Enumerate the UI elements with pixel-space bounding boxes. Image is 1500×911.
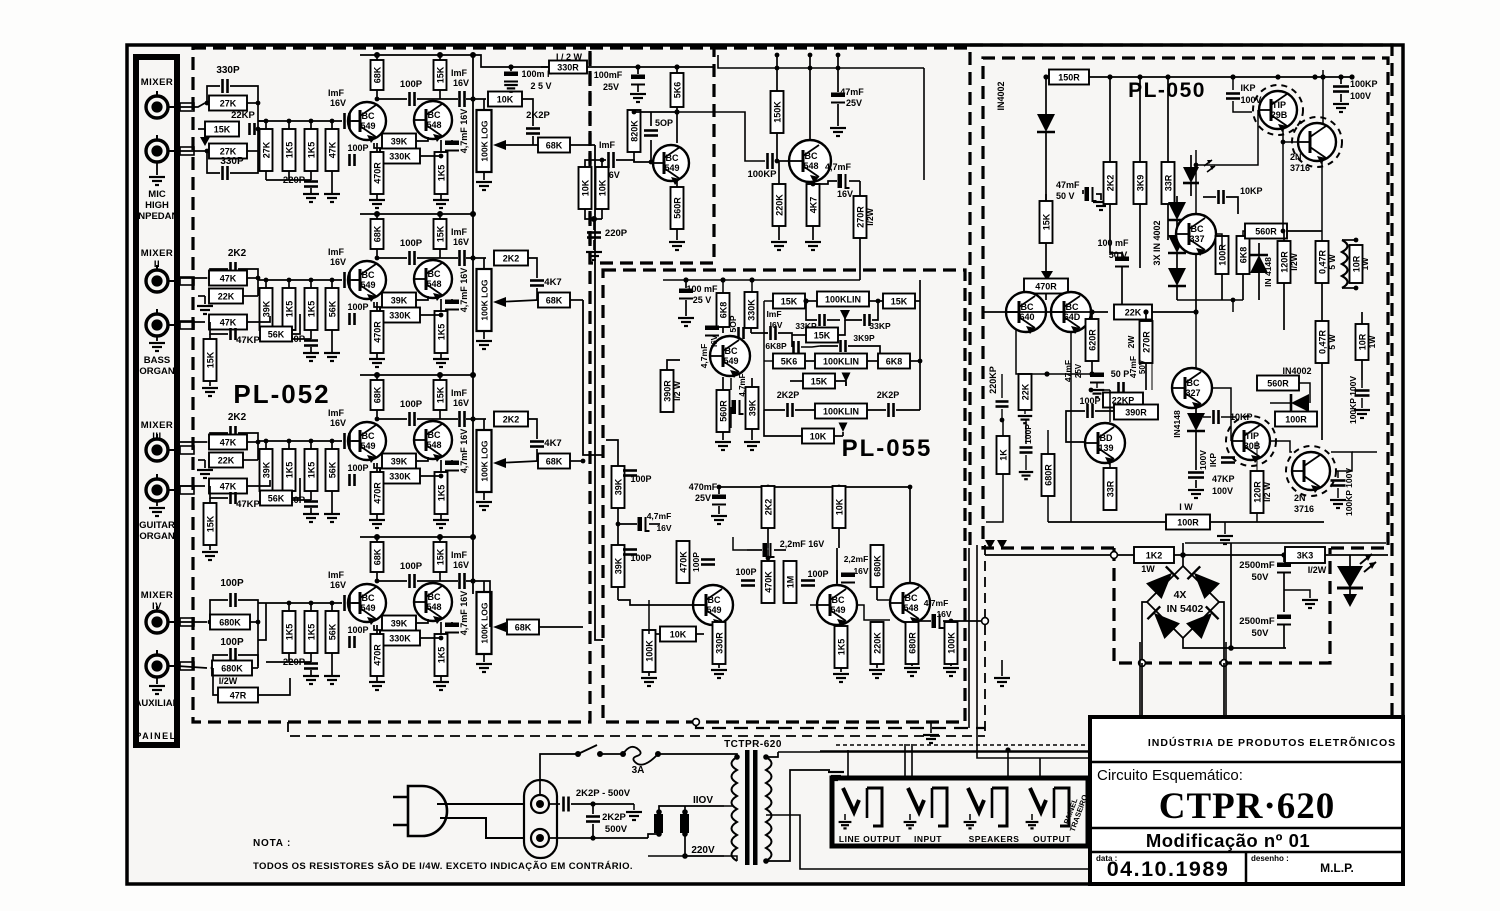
svg-text:100P: 100P [347, 143, 368, 153]
svg-text:BC: BC [805, 151, 818, 161]
svg-text:549: 549 [706, 605, 721, 615]
svg-text:2,2mF: 2,2mF [844, 554, 869, 564]
ground 100K out [943, 668, 959, 676]
wire join mid [257, 442, 259, 460]
svg-text:6K8: 6K8 [1239, 247, 1249, 264]
svg-text:150K: 150K [773, 101, 783, 123]
svg-text:390R: 390R [1125, 408, 1147, 418]
dashed box PL-050 [983, 58, 1388, 548]
svg-text:50 P: 50 P [1111, 369, 1130, 379]
resistor 470R PL-050 [1041, 271, 1053, 281]
dashed box preamp small [590, 48, 714, 263]
jack MIXER [146, 91, 177, 118]
resistor 4K7 driver [812, 183, 814, 184]
svg-text:100KP: 100KP [747, 169, 777, 180]
svg-text:68K: 68K [515, 623, 532, 633]
svg-text:1K5: 1K5 [307, 142, 317, 159]
svg-text:548: 548 [426, 602, 441, 612]
resistor 100R a [1221, 236, 1223, 240]
svg-text:25V: 25V [603, 82, 619, 92]
resistor 390R 1/2W [661, 370, 674, 412]
resistor 68K (ch4) [376, 537, 378, 583]
svg-text:270R: 270R [856, 206, 866, 228]
ground bundle [1001, 660, 1003, 676]
resistor 22K [209, 453, 243, 468]
svg-text:BC: BC [362, 111, 375, 121]
resistor 15K tone row1 left [773, 294, 805, 309]
svg-text:16V: 16V [453, 398, 469, 408]
potentiometer 100KLIN treble [815, 354, 867, 369]
ground 100KP b [1330, 500, 1346, 508]
ground 47KP [1188, 490, 1204, 498]
svg-text:56K: 56K [328, 300, 338, 317]
transistor BC548 pa3 [890, 583, 930, 625]
resistor 680R pa3 [911, 622, 913, 623]
resistor 68K out (ch2) [538, 293, 570, 308]
resistor 680K pa2 [871, 545, 884, 587]
svg-text:5K6: 5K6 [673, 82, 683, 99]
resistor 2K2 out (ch2) [466, 257, 486, 259]
svg-text:16V: 16V [453, 560, 469, 570]
resistor 1K2 1W [1134, 547, 1174, 563]
ground 560R [669, 242, 685, 250]
ground (ch1 bank2) [331, 180, 333, 193]
dashed box power supply [1114, 548, 1330, 663]
svg-text:16V: 16V [330, 98, 346, 108]
wire base BC549 [352, 602, 361, 604]
resistor 15K ch1 [205, 122, 239, 137]
svg-text:100KP: 100KP [1350, 79, 1378, 89]
transistor BC549 (ch2) [348, 261, 386, 302]
svg-text:549: 549 [830, 605, 845, 615]
ground pot (ch3) [476, 502, 492, 510]
rear jack SPEAKERS [964, 788, 1007, 828]
svg-text:68K: 68K [546, 141, 563, 151]
ground arrow ch1 [204, 129, 206, 138]
svg-text:560R: 560R [1255, 227, 1277, 237]
svg-text:15K: 15K [436, 225, 446, 242]
svg-text:47KP: 47KP [236, 499, 260, 510]
svg-text:5OP: 5OP [728, 315, 738, 332]
svg-text:10KP: 10KP [1240, 186, 1263, 196]
resistor 1K5 (ch1 bank) [310, 121, 312, 129]
svg-text:15K: 15K [1042, 213, 1052, 230]
svg-text:100V: 100V [1350, 91, 1371, 101]
svg-text:15K: 15K [436, 66, 446, 83]
resistor 15K mid [806, 328, 838, 343]
resistor 1K5 (ch2 bank) [288, 280, 290, 288]
svg-text:1K5: 1K5 [285, 624, 295, 641]
svg-text:68K: 68K [373, 386, 383, 403]
svg-text:2K2P: 2K2P [526, 110, 550, 121]
svg-text:MIXER: MIXER [141, 77, 174, 88]
ground 330R pa1 [711, 670, 727, 678]
ground (ch1 bank) [310, 188, 312, 193]
resistor 15K vert [209, 498, 211, 504]
wire driver right [923, 68, 925, 180]
ground 1K5 (ch1) [433, 200, 449, 208]
svg-text:16V: 16V [453, 237, 469, 247]
pot wiper arrow (ch1) [497, 144, 538, 146]
resistor 47K (ch1 bank) [331, 121, 333, 129]
supply rail PL-050 [1046, 76, 1352, 78]
resistor 15K (ch3) [439, 375, 441, 419]
resistor 1K5 (ch4 bank) [310, 603, 312, 611]
svg-text:15K: 15K [436, 386, 446, 403]
ground bottom rail PL-050 [1224, 522, 1226, 534]
collector wire to next stage [677, 112, 765, 161]
ground bundle b [930, 722, 932, 733]
supply bus vertical [472, 55, 474, 594]
svg-text:GUITAR: GUITAR [139, 520, 175, 531]
resistor 10R 1W b [1356, 324, 1369, 360]
resistor 270R 1/2W [859, 181, 861, 196]
svg-text:47K: 47K [220, 482, 237, 492]
ground 22K left [1018, 416, 1032, 423]
svg-text:04.10.1989: 04.10.1989 [1107, 857, 1230, 881]
jack MIXER [146, 434, 177, 461]
svg-text:1K5: 1K5 [437, 485, 447, 502]
ground 4K7 [805, 242, 821, 250]
jack MIXER [146, 606, 177, 633]
svg-text:680R: 680R [1044, 464, 1054, 486]
svg-text:100P: 100P [400, 399, 423, 410]
svg-text:470K: 470K [764, 571, 774, 593]
svg-text:120R: 120R [1280, 251, 1290, 273]
svg-text:INDÚSTRIA DE PRODUTOS ELETR: INDÚSTRIA DE PRODUTOS ELETRÕNICOS [1148, 736, 1396, 749]
svg-text:47R: 47R [230, 691, 247, 701]
resistor 15K (ch1) [439, 55, 441, 99]
svg-text:1W: 1W [1141, 564, 1155, 574]
resistor 56K [260, 327, 292, 342]
svg-text:PL-052: PL-052 [233, 379, 330, 409]
resistor 39K in top [612, 466, 625, 508]
svg-text:220KP: 220KP [988, 366, 998, 394]
transistor TIP30B [1226, 416, 1276, 466]
svg-text:330K: 330K [389, 472, 411, 482]
bottom rail PL-050 [1048, 521, 1324, 523]
svg-text:10K: 10K [810, 432, 827, 442]
jack contact [180, 277, 194, 285]
resistor 10K bias a [579, 167, 592, 209]
svg-text:ImF: ImF [328, 247, 345, 257]
wire base BC549 [352, 279, 361, 281]
driver stage rail [718, 55, 924, 68]
resistor 68K out (ch1) [538, 138, 570, 153]
resistor 33R b [1104, 468, 1117, 510]
junction rings dashed crossings [693, 719, 700, 726]
svg-text:100P: 100P [347, 302, 368, 312]
ground (ch4 bank) [310, 670, 312, 675]
ground 470R (ch4) [369, 682, 385, 690]
svg-text:MIC: MIC [148, 189, 166, 200]
resistor 15K vert [209, 334, 211, 340]
resistor 470R (ch2) [376, 302, 378, 311]
wire join mid [257, 278, 259, 296]
wire fb (ch3) [416, 457, 428, 461]
resistor 47K a [177, 441, 207, 443]
svg-text:ImF: ImF [451, 388, 468, 398]
svg-text:100P: 100P [807, 569, 828, 579]
ground pot (ch1) [476, 182, 492, 190]
svg-text:100R: 100R [1177, 518, 1199, 528]
svg-text:640: 640 [1019, 312, 1034, 322]
bundle verticals [984, 545, 986, 736]
svg-text:139: 139 [1098, 443, 1113, 453]
resistor 15K tone row1 right [869, 300, 883, 302]
svg-text:2K2P: 2K2P [877, 390, 900, 400]
ground 1K5 (ch2) [433, 359, 449, 367]
svg-text:BC: BC [428, 110, 441, 120]
svg-text:100V: 100V [1198, 450, 1208, 470]
resistor 220K [778, 161, 780, 184]
svg-text:15K: 15K [436, 548, 446, 565]
transistor BC337 [1176, 214, 1216, 256]
svg-text:100K LOG: 100K LOG [480, 440, 490, 481]
svg-text:6K8: 6K8 [886, 357, 903, 367]
svg-text:2N: 2N [1294, 493, 1306, 503]
svg-text:548: 548 [426, 279, 441, 289]
resistor 1K5 emitter (ch1) [440, 140, 442, 152]
transistor TIP29B [1253, 85, 1303, 135]
svg-text:4,7mF 16V: 4,7mF 16V [459, 429, 469, 474]
svg-text:39K: 39K [391, 619, 408, 629]
svg-text:1M: 1M [786, 576, 796, 589]
svg-text:MIXER: MIXER [141, 248, 174, 259]
potentiometer 100K LOG (ch4) [483, 581, 485, 592]
fuse 3A [620, 751, 626, 757]
resistor 33R PL-050 [1167, 77, 1169, 162]
resistor 39K in bottom [612, 545, 625, 587]
svg-text:AUXILIAR: AUXILIAR [135, 698, 180, 709]
svg-text:desenho :: desenho : [1251, 854, 1289, 863]
resistor 5K6 tone [773, 354, 805, 369]
jack MIXER [146, 474, 177, 501]
svg-text:1K5: 1K5 [307, 462, 317, 479]
resistor 0.47R 5W a [1316, 241, 1329, 283]
svg-text:4K7: 4K7 [544, 277, 561, 288]
ground (panel) [156, 500, 158, 506]
svg-text:220K: 220K [873, 632, 883, 654]
jack MIXER [146, 650, 177, 677]
resistor 2K2 out (ch3) [466, 418, 486, 420]
svg-text:5OP: 5OP [655, 118, 673, 128]
svg-text:1K2: 1K2 [1146, 551, 1163, 561]
resistor 3K3 1/2W [1285, 547, 1325, 563]
resistor 1M pa [784, 561, 797, 603]
svg-text:29B: 29B [1271, 110, 1288, 120]
svg-text:2K2P: 2K2P [602, 812, 626, 823]
svg-text:56K: 56K [328, 623, 338, 640]
transistor BC548 (ch3) [414, 421, 452, 462]
svg-text:100P: 100P [1079, 396, 1100, 406]
resistor 47K a [177, 277, 207, 279]
transistor BC640 b [1051, 292, 1091, 334]
wire input join ch1 [257, 103, 259, 151]
svg-text:680R: 680R [908, 632, 918, 654]
bus wire A [595, 145, 603, 640]
svg-text:68K: 68K [373, 66, 383, 83]
svg-text:560R: 560R [719, 400, 729, 422]
resistor 68K out (ch3) [538, 454, 570, 469]
resistor 470R (ch4) [376, 625, 378, 634]
svg-text:270R: 270R [1142, 331, 1152, 353]
ground 680R pa3 [904, 668, 920, 676]
supply rail preamp [587, 66, 714, 68]
ground transformer [828, 772, 844, 780]
resistor 560R b [1257, 376, 1299, 391]
svg-text:M.L.P.: M.L.P. [1320, 861, 1354, 875]
svg-text:10K: 10K [598, 179, 608, 196]
resistor 39K (ch3 bank) [265, 441, 267, 449]
svg-text:25V: 25V [846, 98, 862, 108]
svg-text:100P: 100P [220, 578, 244, 589]
svg-text:68K: 68K [546, 457, 563, 467]
potentiometer 100K LOG (ch1) [483, 99, 485, 110]
resistor 10K vol [802, 429, 834, 444]
svg-text:549: 549 [723, 356, 738, 366]
svg-text:3K3: 3K3 [1297, 551, 1314, 561]
svg-text:Modificação nº 01: Modificação nº 01 [1146, 830, 1310, 851]
svg-text:I/2 W: I/2 W [672, 380, 682, 401]
mid rail PL-050 [984, 311, 1108, 313]
sheet frame [127, 45, 1403, 884]
resistor 330K feedback (ch4) [380, 631, 420, 646]
resistor 820K [628, 110, 641, 152]
channel 4 top rail wire [360, 536, 473, 538]
svg-text:TCTPR-620: TCTPR-620 [724, 739, 782, 750]
svg-text:16V: 16V [837, 189, 853, 199]
resistor 1K5 (ch3 bank) [288, 441, 290, 449]
resistor 1K5 pa2 [840, 625, 842, 626]
svg-text:6K8P: 6K8P [765, 341, 787, 351]
ground 100P b [1019, 472, 1033, 479]
svg-text:MIXER: MIXER [141, 420, 174, 431]
resistor 39K feedback (ch4) [382, 616, 416, 631]
jack contact [180, 486, 194, 494]
transistor BD139 [1085, 423, 1125, 465]
resistor 39K feedback (ch1) [382, 134, 416, 149]
ground 220K [771, 242, 787, 250]
svg-text:NOTA :: NOTA : [253, 838, 291, 849]
svg-text:Circuito Esquemático:: Circuito Esquemático: [1097, 767, 1243, 784]
mains bottom wire [540, 847, 560, 856]
left bus tone [763, 301, 765, 410]
jack contact [180, 103, 194, 111]
svg-text:16V: 16V [330, 257, 346, 267]
resistor 56K [260, 491, 292, 506]
svg-text:549: 549 [360, 280, 375, 290]
svg-text:10K: 10K [497, 95, 514, 105]
svg-text:100K LOG: 100K LOG [480, 602, 490, 643]
resistor 620R [1091, 312, 1093, 319]
svg-text:220V: 220V [691, 845, 715, 856]
svg-text:4,7mF 16V: 4,7mF 16V [459, 109, 469, 154]
svg-text:ImF: ImF [766, 309, 781, 319]
resistor 22K [209, 289, 243, 304]
svg-text:100P: 100P [220, 637, 244, 648]
title block frame [1090, 717, 1403, 884]
jack MIXER [146, 135, 177, 162]
svg-text:27K: 27K [220, 147, 237, 157]
svg-text:ImF: ImF [599, 140, 616, 150]
resistor 39K tone [746, 387, 759, 429]
transistor BC549 preamp [653, 145, 689, 185]
channel 1 top rail wire [360, 54, 473, 56]
svg-text:1W: 1W [1367, 335, 1377, 349]
svg-text:3X IN 4002: 3X IN 4002 [1152, 220, 1162, 265]
svg-text:3716: 3716 [1290, 163, 1310, 173]
svg-text:HIGH: HIGH [145, 200, 169, 211]
ground (panel) [156, 161, 158, 175]
feed to 330R and 100mF [473, 55, 549, 67]
svg-text:ImF: ImF [328, 88, 345, 98]
resistor 120R 1/2W b [1251, 471, 1264, 513]
ground 100KP top [1333, 104, 1349, 112]
power switch [575, 751, 581, 757]
inductor output [1342, 240, 1348, 288]
svg-text:ImF: ImF [451, 68, 468, 78]
svg-text:I/2W: I/2W [1308, 565, 1327, 575]
resistor 470K bias [677, 541, 690, 583]
svg-text:39K: 39K [262, 300, 272, 317]
mains cord [437, 803, 524, 805]
rear jack LINE OUTPUT [839, 788, 882, 828]
svg-text:1K: 1K [999, 449, 1009, 461]
svg-text:IKP: IKP [1208, 453, 1218, 468]
pot wiper arrow (ch3) [497, 461, 538, 463]
svg-text:15K: 15K [781, 297, 798, 307]
svg-text:25 V: 25 V [693, 295, 712, 305]
svg-text:330R: 330R [557, 63, 579, 73]
resistor 68K (ch1) [376, 55, 378, 101]
svg-text:50 V: 50 V [1056, 191, 1075, 201]
resistor 1K5 (ch4 bank) [288, 603, 290, 611]
svg-text:470R: 470R [373, 482, 383, 504]
svg-text:1K5: 1K5 [285, 301, 295, 318]
resistor 68K out (ch4) [466, 581, 490, 627]
dashed segment top middle [714, 46, 968, 49]
svg-text:BC: BC [1066, 302, 1079, 312]
jack MIXER [146, 265, 177, 292]
svg-text:100V: 100V [1240, 95, 1261, 105]
svg-text:330K: 330K [747, 299, 757, 321]
wire ch4 join [257, 622, 259, 666]
resistor 6K8 a [1237, 236, 1250, 274]
resistor 27K ch1a [177, 103, 205, 107]
svg-text:PAINEL: PAINEL [135, 731, 176, 741]
svg-text:100P: 100P [735, 567, 756, 577]
svg-text:1K5: 1K5 [437, 165, 447, 182]
svg-text:68K: 68K [373, 225, 383, 242]
svg-text:1K5: 1K5 [437, 647, 447, 664]
wire fb (ch1) [416, 137, 428, 141]
resistor 2K2 PL-055 [767, 486, 769, 487]
svg-text:BASS: BASS [144, 355, 170, 366]
svg-text:50V: 50V [1252, 572, 1270, 583]
svg-text:120R: 120R [1253, 481, 1263, 503]
dashed box PL-050 outer [970, 45, 1392, 884]
svg-text:100P: 100P [400, 238, 423, 249]
ground 100mF ch1 [504, 85, 518, 92]
wire collector BC549 (ch2) [376, 258, 378, 260]
svg-text:50V: 50V [1252, 628, 1270, 639]
resistor 560R [676, 181, 678, 190]
svg-text:I/2 W: I/2 W [1262, 481, 1272, 502]
svg-text:100K: 100K [645, 640, 655, 662]
svg-text:2N: 2N [1290, 152, 1302, 162]
svg-text:100P: 100P [400, 79, 423, 90]
